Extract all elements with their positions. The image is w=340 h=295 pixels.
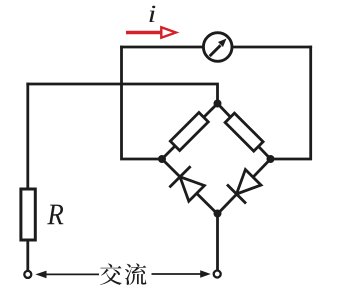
wire bridge arm top-right (218, 104, 271, 160)
label 交 (100, 263, 122, 284)
ammeter meter (203, 33, 232, 62)
wire left branch below R (26, 240, 29, 270)
terminal left (24, 271, 31, 278)
label 流 (125, 263, 147, 285)
terminal right (214, 271, 221, 278)
resistor R2 (225, 113, 263, 151)
wire right side down to right node (271, 47, 311, 159)
wire bridge arm bottom-right (218, 159, 271, 214)
wire AC feed to top node (28, 84, 218, 104)
node left (158, 155, 166, 163)
wire bridge arm top-left (162, 104, 218, 160)
label i (149, 6, 155, 22)
diode D1 (169, 166, 204, 201)
diode D2 (227, 170, 261, 204)
node bottom (214, 210, 222, 218)
resistor R1 (170, 113, 208, 151)
wire top meter branch (122, 46, 311, 49)
node right (267, 155, 275, 163)
node top (214, 100, 222, 108)
label R (47, 205, 63, 225)
resistor R (21, 189, 35, 240)
wire bridge arm bottom-left (162, 159, 218, 214)
arrow to left terminal (35, 271, 99, 279)
wire left node to meter loop (122, 47, 163, 159)
current arrow i (126, 27, 176, 37)
wire bottom node to right terminal (216, 214, 219, 270)
wire left branch above R (26, 84, 29, 189)
arrow to right terminal (152, 270, 211, 278)
